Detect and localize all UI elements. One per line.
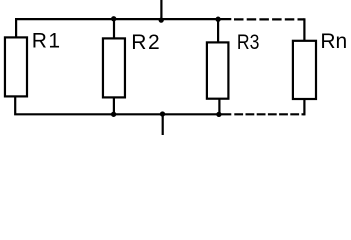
wire: R2 top lead (113, 18, 115, 39)
svg-text:R1: R1 (32, 30, 60, 53)
junction dot: R3 top (215, 17, 220, 22)
wire: top supply stub (160, 0, 162, 19)
wire: R3 bottom lead (218, 98, 220, 115)
resistor Rn body (293, 41, 316, 99)
junction dot: R2 top (111, 16, 116, 21)
wire: bottom supply stub (162, 114, 164, 135)
junction dot: bottom stub (160, 111, 165, 116)
resistor R3 body (207, 42, 229, 98)
wire: Rn bottom lead (303, 99, 305, 116)
wire: bottom bus dashed segment (234, 113, 304, 115)
wire: top bus dashed segment (234, 18, 304, 20)
wire: bottom bus solid segment (15, 96, 231, 114)
wire: Rn top lead (303, 18, 305, 41)
svg-text:Rn: Rn (320, 30, 347, 53)
junction dot: R2 bottom (111, 112, 116, 117)
junction dot: top stub (159, 17, 164, 22)
wire: top bus solid segment (16, 19, 231, 38)
resistor R2 body (103, 38, 125, 97)
wire: R3 top lead (217, 18, 219, 43)
svg-text:R3: R3 (237, 31, 260, 54)
svg-text:R2: R2 (131, 31, 160, 54)
wire: R2 bottom lead (113, 97, 115, 116)
resistor R1 body (5, 37, 27, 96)
junction dot: R3 bottom (216, 112, 221, 117)
